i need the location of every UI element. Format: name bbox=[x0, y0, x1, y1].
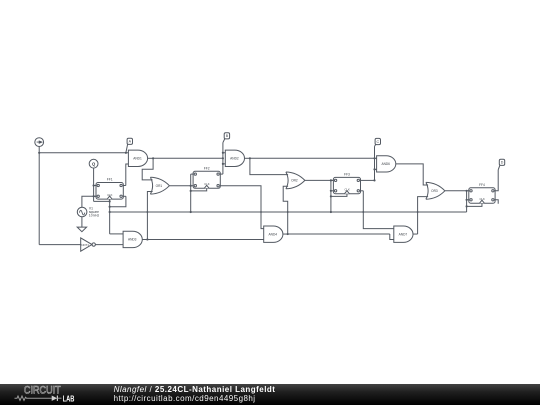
wire AND2 output bbox=[245, 157, 250, 159]
node junction AND2 in A bbox=[222, 152, 224, 154]
node Q terminal circle bbox=[89, 159, 98, 168]
wire FF4 Q up to flag D bbox=[495, 170, 498, 191]
wire FF1 rail down bbox=[109, 201, 111, 234]
wire IN1 down left rail bbox=[38, 153, 40, 245]
wire AND6 stub B bbox=[375, 168, 377, 170]
node junction FF4 rail CLK hook bbox=[466, 205, 468, 207]
node junction AND1 out bbox=[152, 157, 154, 159]
svg-text:FF1: FF1 bbox=[107, 178, 113, 182]
and-gate AND1 bbox=[128, 150, 147, 166]
node junction FF3 rail K bbox=[330, 190, 332, 192]
node junction at IN1 drop bbox=[38, 152, 40, 154]
wire OR3 output to FF4 bbox=[445, 190, 469, 192]
node junction AND2 in B bbox=[222, 163, 224, 165]
svg-text:B: B bbox=[226, 134, 229, 138]
wire FF4 left rail bbox=[466, 191, 468, 212]
node junction OR1 out at FF2 rail bbox=[190, 185, 192, 187]
wire AND6 rail vertical bbox=[374, 146, 376, 180]
wire OR1 output to FF2 bbox=[169, 185, 193, 187]
node junction Qbar hook bbox=[109, 206, 111, 208]
wire FF2 Q stub bbox=[220, 173, 223, 175]
node junction AND3 out bbox=[146, 238, 148, 240]
svg-text:FF2: FF2 bbox=[204, 167, 210, 171]
wire FF1 Q up to AND1 bbox=[126, 164, 129, 186]
wire clock bus bbox=[110, 211, 467, 213]
wire AND3 out up to OR1 input B bbox=[147, 192, 152, 240]
wire Q terminal down to FF1 bbox=[93, 168, 95, 201]
wire AND1 out jog to OR1 input A bbox=[142, 158, 153, 180]
wire FF1 Qbar stub bbox=[123, 195, 126, 197]
flip-flop FF3 bbox=[333, 177, 360, 193]
node junction FF1 K row bbox=[93, 195, 95, 197]
wire flag A stick bbox=[126, 144, 128, 152]
inverter NOT1 bbox=[81, 238, 92, 251]
wire FF3 Qbar down to AND7 input A bbox=[363, 191, 394, 229]
wire FF4 Qbar stub hook bbox=[495, 200, 498, 204]
node junction rail-bus bbox=[109, 211, 111, 213]
node flag D bbox=[499, 159, 504, 165]
node flag C bbox=[375, 138, 380, 144]
wire IN1 to AND1 input A (horizontal) bbox=[39, 152, 128, 154]
svg-text:10 kHz: 10 kHz bbox=[89, 214, 100, 218]
svg-text:AND6: AND6 bbox=[381, 162, 390, 166]
wire IN1 stub down bbox=[38, 147, 40, 153]
node junction FF4 rail K bbox=[466, 199, 468, 201]
wire flag B stick bbox=[223, 139, 225, 143]
footer bar bbox=[0, 384, 540, 405]
svg-text:AND1: AND1 bbox=[133, 157, 142, 161]
and-gate AND3 bbox=[123, 231, 142, 247]
node junction OR3 out at FF4 rail bbox=[466, 190, 468, 192]
wire FF1 Qbar hook bbox=[110, 196, 126, 206]
svg-text:AND2: AND2 bbox=[230, 157, 239, 161]
svg-text:OR1: OR1 bbox=[156, 184, 163, 188]
voltage source V1 (square 10 kHz) bbox=[77, 207, 87, 217]
wire AND4 out jog to AND7 input B bbox=[390, 234, 394, 239]
wire FF3 Q to AND6 rail bbox=[361, 179, 375, 181]
svg-text:C: C bbox=[376, 140, 379, 144]
node junction FF2 rail bus bbox=[190, 211, 192, 213]
node bus crossing marks bbox=[146, 211, 148, 213]
wire flag C stick bbox=[375, 145, 376, 147]
wire OR2 output to FF3 bbox=[305, 179, 334, 181]
wire FF4 K stub bbox=[467, 199, 469, 201]
wire AND2 rail vertical bbox=[222, 143, 224, 175]
node flag A bbox=[127, 138, 132, 144]
and-gate AND6 bbox=[377, 156, 396, 172]
wire FF1 K stub bbox=[94, 195, 96, 197]
wire FF2 CLK hook bbox=[191, 188, 207, 191]
svg-text:NOT1: NOT1 bbox=[81, 243, 89, 247]
wire AND1 output bbox=[148, 157, 154, 159]
flip-flop FF2 bbox=[193, 171, 220, 188]
svg-text:FF4: FF4 bbox=[479, 183, 485, 187]
wire AND2 out jog to OR2 input A bbox=[250, 158, 288, 174]
wire AND6 output jog to OR3 input A bbox=[396, 164, 428, 185]
wire NOT1 output to AND3 input B bbox=[95, 244, 123, 246]
svg-text:OR3: OR3 bbox=[431, 189, 438, 193]
node junction AND4 out bbox=[287, 233, 289, 235]
wire FF2 Qbar long bbox=[220, 186, 263, 229]
or-gate OR2 bbox=[286, 172, 288, 189]
wire left rail to NOT1 input bbox=[39, 244, 80, 246]
wire V1 top to FF1 K bbox=[82, 196, 96, 207]
node junction FF3 Q rail bbox=[373, 179, 375, 181]
node IN1 (clock/input terminal circle with arrow) bbox=[35, 138, 44, 147]
svg-text:A: A bbox=[129, 140, 132, 144]
wire FF4 CLK hook bbox=[467, 203, 482, 206]
and-gate AND2 bbox=[225, 150, 244, 166]
svg-text:LAB: LAB bbox=[63, 395, 75, 404]
wire FF3 CLK hook bbox=[331, 194, 347, 197]
wire AND2 stub B bbox=[223, 163, 225, 165]
wire AND4 out long bbox=[288, 233, 390, 235]
wire AND7 output bbox=[413, 233, 418, 235]
wire AND6 stub A bbox=[375, 157, 377, 159]
node junction AND6 in A bbox=[373, 157, 375, 159]
node junction AND1-out join bbox=[222, 157, 224, 159]
node junction flag A tap bbox=[125, 152, 127, 154]
ground GND1 bbox=[77, 227, 86, 232]
wire jog to FF1 CLK rail bbox=[94, 200, 110, 202]
wire AND1 out long to AND2 rail bbox=[153, 157, 223, 159]
wire FF1 CLK stub bbox=[109, 199, 111, 201]
node junction FF1 CLK bbox=[109, 200, 111, 202]
wire AND4 output bbox=[283, 233, 288, 235]
wire FF2 J stub bbox=[191, 173, 193, 175]
wire FF1 Q stub bbox=[123, 185, 126, 187]
node junction FF2 rail CLK hook bbox=[190, 190, 192, 192]
node junction AND6 in B bbox=[373, 168, 375, 170]
wire FF3 left rail bbox=[330, 180, 332, 212]
flip-flop FF1 bbox=[96, 183, 123, 200]
svg-text:AND4: AND4 bbox=[269, 232, 278, 236]
node junction FF3 rail CLK hook bbox=[330, 195, 332, 197]
and-gate AND7 bbox=[394, 226, 413, 242]
svg-text:FF3: FF3 bbox=[344, 173, 350, 177]
node junction FF3 rail bus bbox=[330, 211, 332, 213]
node junction OR2 out at FF3 rail bbox=[330, 179, 332, 181]
wire FF3 K stub bbox=[331, 190, 334, 192]
wire FF1 J stub bbox=[94, 185, 96, 187]
wire FF3 J stub bbox=[331, 179, 334, 181]
wire flag D stick bbox=[498, 165, 500, 169]
flip-flop FF4 bbox=[469, 188, 495, 203]
node junction AND2 out bbox=[249, 157, 251, 159]
wire V1 bottom to ground bbox=[81, 217, 83, 228]
svg-text:Q: Q bbox=[92, 161, 96, 166]
wire FF2 left rail bbox=[190, 174, 192, 212]
wire AND7 out up to OR3 input B bbox=[418, 197, 429, 234]
or-gate OR3 bbox=[426, 182, 428, 199]
svg-text:OR2: OR2 bbox=[291, 179, 298, 183]
wire AND2 out long to AND6 rail bbox=[250, 157, 375, 159]
or-gate OR1 bbox=[150, 177, 152, 194]
node flag B bbox=[224, 133, 229, 139]
node junction FF1 J row bbox=[93, 184, 95, 186]
wire AND2 stub A bbox=[223, 152, 225, 154]
wire OR2 input B jog bbox=[283, 186, 288, 234]
svg-text:CIRCUIT: CIRCUIT bbox=[24, 385, 61, 397]
and-gate AND4 bbox=[264, 226, 283, 242]
svg-text:AND3: AND3 bbox=[128, 238, 137, 242]
svg-text:D: D bbox=[501, 161, 504, 165]
svg-text:AND7: AND7 bbox=[399, 232, 408, 236]
wire rail to AND3 input A bbox=[110, 233, 123, 235]
wire AND3 output bbox=[142, 238, 263, 240]
wire FF3 Qbar stub bbox=[361, 190, 364, 192]
